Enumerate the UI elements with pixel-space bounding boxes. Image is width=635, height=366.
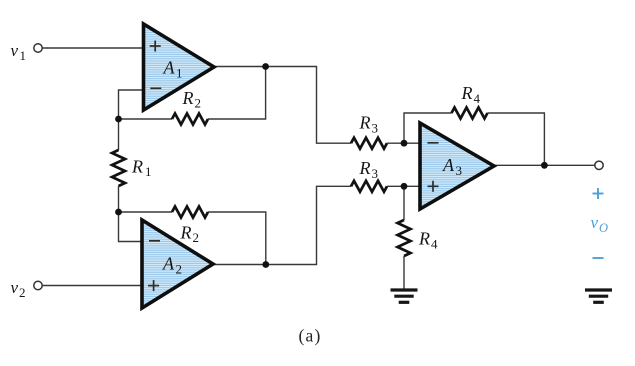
resistor R3 (upper) (351, 138, 387, 149)
svg-text:1: 1 (176, 66, 183, 81)
resistor R4 (upper) (452, 108, 488, 119)
resistor R2 (lower) (172, 207, 208, 218)
svg-text:2: 2 (19, 285, 26, 300)
junction node: A2 output (262, 261, 269, 268)
ground (below R4) (391, 290, 418, 302)
svg-text:1: 1 (20, 48, 27, 63)
svg-text:1: 1 (145, 164, 152, 179)
terminal v2 (34, 281, 42, 289)
wire v1 to A1 + input (42, 47, 143, 49)
wire node E up and R4 top feedback (404, 113, 452, 143)
wire R2 bottom right to A2 output line (208, 212, 266, 265)
resistor R4 (lower) (398, 220, 411, 256)
junction node B (115, 116, 122, 123)
output polarity - (593, 257, 604, 259)
op-amp A1 (144, 24, 215, 110)
wire R4 top to output node (488, 113, 545, 165)
output polarity + (593, 188, 604, 199)
wire node C to R2 bottom (119, 211, 173, 213)
wire node C to A2 - input (119, 212, 143, 242)
resistor R1 (112, 150, 125, 186)
svg-text:3: 3 (456, 163, 463, 178)
wire R4 lower to ground (403, 256, 405, 290)
svg-text:A: A (442, 155, 455, 175)
svg-text:v: v (591, 213, 599, 232)
svg-text:R: R (182, 88, 194, 108)
wire node F down to R4 lower (403, 186, 405, 220)
terminal v1 (34, 44, 42, 52)
svg-text:2: 2 (193, 230, 200, 245)
wire A2 output to R3 lower (212, 186, 351, 264)
op-amp A3 (420, 123, 494, 209)
svg-text:4: 4 (431, 237, 438, 252)
junction node: output (541, 162, 548, 169)
svg-text:3: 3 (372, 121, 379, 136)
wire R3 top to A3 - input (387, 142, 420, 144)
svg-text:2: 2 (176, 262, 183, 277)
svg-text:O: O (599, 221, 608, 235)
resistor R2 (upper) (172, 114, 208, 125)
svg-text:R: R (180, 223, 192, 243)
op-amp A2 (142, 220, 213, 308)
junction node: A3 - input (401, 140, 408, 147)
svg-text:R: R (418, 229, 430, 249)
svg-text:4: 4 (474, 91, 481, 106)
svg-text:v: v (11, 278, 19, 297)
wire A1 - input to node B (119, 90, 144, 119)
svg-text:R: R (359, 158, 371, 178)
svg-text:A: A (163, 58, 176, 78)
junction node: A3 + input (401, 183, 408, 190)
svg-text:R: R (131, 157, 143, 177)
wire R3 lower to A3 + input (387, 185, 420, 187)
wire v2 to A2 + input (42, 285, 142, 287)
ground (output reference) (585, 290, 612, 302)
wire node B to R2 top left lead (119, 118, 173, 120)
junction node: A1 output (262, 63, 269, 70)
svg-text:R: R (359, 113, 371, 133)
svg-text:3: 3 (372, 166, 379, 181)
svg-text:R: R (461, 83, 473, 103)
wire A1 output to R3 top (213, 67, 351, 144)
resistor R3 (lower) (351, 181, 387, 192)
wire A3 output to output terminal (494, 164, 595, 166)
junction node C (115, 209, 122, 216)
wire R2 top right lead to A1 output line (208, 67, 266, 120)
svg-text:(a): (a) (299, 326, 322, 346)
svg-text:v: v (11, 41, 19, 60)
terminal output (595, 161, 603, 169)
svg-text:A: A (162, 254, 175, 274)
svg-text:2: 2 (195, 96, 202, 111)
wire node B down through R1 to node C (118, 119, 120, 150)
